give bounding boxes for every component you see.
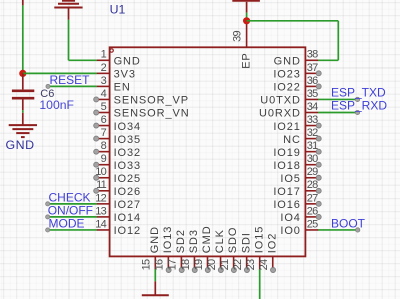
svg-text:SDO: SDO: [227, 227, 239, 254]
pin 31 IO19: [273, 140, 321, 159]
pin 25 IO0: [280, 218, 318, 237]
pin 38 GND: [274, 49, 319, 68]
capacitor C6: [12, 73, 34, 110]
net label BOOT: [331, 216, 366, 230]
net label ESP_RXD: [331, 99, 387, 113]
wire CHECK to pin 12: [46, 202, 97, 206]
wire C6 to ground: [22, 110, 24, 113]
pin 28 IO17: [273, 179, 321, 198]
label GND (below C6): [6, 138, 35, 152]
svg-text:GND: GND: [6, 138, 35, 152]
svg-text:EP: EP: [240, 52, 252, 68]
pin 10 IO25: [94, 166, 141, 185]
svg-text:7: 7: [101, 127, 107, 139]
svg-text:16: 16: [154, 259, 166, 270]
svg-text:25: 25: [307, 218, 318, 230]
svg-text:17: 17: [167, 259, 179, 270]
svg-text:14: 14: [95, 218, 106, 230]
net label MODE: [49, 216, 85, 230]
svg-text:CHECK: CHECK: [49, 190, 91, 204]
svg-text:IO22: IO22: [273, 82, 300, 94]
pin 35 U0TXD: [260, 88, 318, 107]
net label ON/OFF: [48, 203, 93, 217]
wire GND-top to pin1: [69, 20, 97, 61]
pin 21 SDO: [219, 227, 239, 273]
svg-text:IO15: IO15: [253, 226, 265, 253]
ground GND (top-left, rotated): [54, 1, 82, 20]
pin 7 IO35: [94, 127, 141, 146]
svg-text:IO19: IO19: [273, 147, 300, 159]
pin 19 CMD: [193, 225, 213, 272]
svg-text:CMD: CMD: [201, 225, 213, 253]
svg-text:8: 8: [101, 140, 107, 152]
svg-text:BOOT: BOOT: [331, 216, 366, 230]
svg-text:IO2: IO2: [266, 233, 278, 253]
label U1: [110, 3, 126, 17]
svg-text:IO33: IO33: [114, 160, 141, 172]
svg-text:1: 1: [101, 49, 107, 61]
pin 24 IO2: [258, 233, 278, 273]
wire ESP_RXD: [318, 110, 360, 114]
svg-text:13: 13: [95, 205, 106, 217]
svg-text:IO12: IO12: [114, 225, 141, 237]
svg-text:19: 19: [193, 259, 205, 270]
svg-text:21: 21: [219, 259, 231, 270]
svg-text:SDI: SDI: [240, 232, 252, 253]
value 100nF: [39, 98, 74, 112]
svg-text:5: 5: [101, 101, 107, 113]
pin 5 SENSOR_VN: [94, 101, 190, 120]
pin 33 IO21: [273, 114, 321, 133]
svg-text:38: 38: [307, 49, 318, 61]
wire MODE to pin 14: [46, 228, 97, 232]
svg-text:IO34: IO34: [114, 121, 141, 133]
svg-text:RESET: RESET: [50, 73, 91, 87]
ground GND (bottom, single bar): [142, 281, 169, 295]
svg-text:IO27: IO27: [114, 199, 141, 211]
svg-text:SENSOR_VP: SENSOR_VP: [114, 95, 189, 107]
svg-text:IO13: IO13: [162, 226, 174, 253]
svg-text:IO26: IO26: [114, 186, 141, 198]
svg-text:MODE: MODE: [49, 216, 85, 230]
wire junction to pin2 3V3: [23, 72, 97, 74]
pin 2 3V3: [97, 62, 136, 81]
IC U1 (ESP32 module) body: [110, 47, 306, 256]
ground GND (top, single bar at EP): [232, 1, 260, 13]
node junction EP/GND: [243, 17, 250, 24]
svg-text:12: 12: [95, 192, 106, 204]
svg-text:20: 20: [206, 259, 218, 270]
pin 4 SENSOR_VP: [94, 88, 189, 107]
pin 14 IO12: [95, 218, 141, 237]
pin 1 GND: [97, 49, 141, 68]
pin 22 SDI: [232, 232, 252, 272]
svg-text:35: 35: [307, 88, 318, 100]
svg-text:SD2: SD2: [175, 229, 187, 253]
pin 23 IO15: [245, 226, 265, 271]
svg-text:9: 9: [101, 153, 107, 165]
svg-text:U1: U1: [110, 3, 126, 17]
svg-text:18: 18: [180, 259, 192, 270]
pin 20 CLK: [206, 229, 226, 272]
wire EP junction vertical: [246, 13, 248, 21]
svg-text:IO21: IO21: [273, 121, 300, 133]
pin 37 IO23: [273, 62, 321, 81]
ground GND (below C6): [9, 113, 37, 137]
wire 3V3 vertical from top: [22, 0, 24, 73]
svg-text:IO5: IO5: [280, 173, 300, 185]
svg-text:IO25: IO25: [114, 173, 141, 185]
svg-text:ESP_RXD: ESP_RXD: [331, 99, 387, 113]
wire pin23 IO15 down off-sheet: [259, 269, 261, 299]
svg-text:IO14: IO14: [114, 212, 141, 224]
wire ESP_TXD: [318, 97, 360, 101]
svg-text:NC: NC: [283, 134, 301, 146]
svg-text:15: 15: [141, 259, 153, 270]
svg-text:100nF: 100nF: [39, 98, 74, 112]
pin 8 IO32: [94, 140, 141, 159]
pin 9 IO33: [94, 153, 141, 172]
node junction 3V3/C6: [19, 70, 26, 77]
net label RESET: [50, 73, 91, 87]
wire pin15 GND down: [154, 269, 156, 281]
svg-text:23: 23: [245, 259, 257, 270]
svg-text:4: 4: [101, 88, 107, 100]
svg-text:24: 24: [258, 259, 270, 270]
svg-text:IO17: IO17: [273, 186, 300, 198]
svg-text:U0RXD: U0RXD: [259, 108, 301, 120]
pin 29 IO5: [280, 166, 321, 185]
label C6: [40, 88, 54, 100]
pin 11 IO26: [94, 179, 141, 198]
svg-text:3: 3: [101, 75, 107, 87]
pin 39 EP: [232, 21, 253, 69]
svg-text:GND: GND: [114, 56, 141, 68]
svg-text:CLK: CLK: [214, 229, 226, 253]
svg-text:ON/OFF: ON/OFF: [48, 203, 93, 217]
svg-text:EN: EN: [114, 82, 131, 94]
svg-text:IO32: IO32: [114, 147, 141, 159]
svg-text:IO18: IO18: [273, 160, 300, 172]
svg-text:IO35: IO35: [114, 134, 141, 146]
wire BOOT to pin25 IO0: [318, 228, 360, 232]
pin 36 IO22: [273, 75, 321, 94]
svg-text:U0TXD: U0TXD: [260, 95, 301, 107]
pin 16 IO13: [154, 226, 174, 273]
svg-text:SD3: SD3: [188, 229, 200, 253]
net label CHECK: [49, 190, 91, 204]
pin 3 EN: [97, 75, 131, 94]
svg-text:IO4: IO4: [280, 212, 300, 224]
wire RESET to pin3 EN: [46, 84, 97, 88]
svg-text:2: 2: [101, 62, 107, 74]
pin 6 IO34: [94, 114, 141, 133]
pin 26 IO4: [280, 205, 321, 224]
pin 17 SD2: [167, 229, 187, 272]
svg-text:22: 22: [232, 259, 244, 270]
svg-text:IO23: IO23: [273, 69, 300, 81]
svg-text:GND: GND: [149, 226, 161, 253]
svg-text:IO16: IO16: [273, 199, 300, 211]
svg-text:3V3: 3V3: [114, 69, 136, 81]
wire ON/OFF to pin 13: [46, 215, 97, 219]
wire EP net to pin38 GND: [247, 21, 339, 61]
svg-text:34: 34: [307, 101, 318, 113]
pin 13 IO14: [95, 205, 141, 224]
svg-text:IO0: IO0: [280, 225, 300, 237]
svg-text:6: 6: [101, 114, 107, 126]
svg-text:39: 39: [232, 30, 244, 41]
pin 27 IO16: [273, 192, 321, 211]
pin 18 SD3: [180, 229, 200, 272]
pin 34 U0RXD: [259, 101, 318, 120]
pin 12 IO27: [95, 192, 141, 211]
pin 30 IO18: [273, 153, 321, 172]
pin 32 NC: [283, 127, 321, 146]
pin 15 GND: [141, 226, 161, 270]
net label ESP_TXD: [331, 86, 386, 100]
svg-text:ESP_TXD: ESP_TXD: [331, 86, 386, 100]
svg-text:SENSOR_VN: SENSOR_VN: [114, 108, 190, 120]
pin 1 marker circle: [110, 49, 113, 52]
svg-text:GND: GND: [274, 56, 301, 68]
